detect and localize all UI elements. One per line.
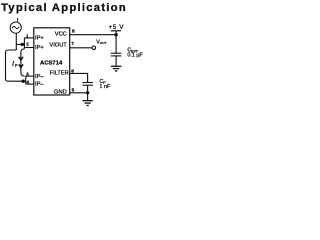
GND wire pin5 [70,92,88,94]
jumper bar pins 3-4 [25,76,27,84]
svg-text:VCC: VCC [55,32,67,38]
ground symbol GND2 [87,93,89,101]
svg-text:IP+: IP+ [35,36,44,42]
source stem wire [15,34,17,51]
svg-text:GND: GND [54,90,67,96]
capacitor CF [82,82,93,84]
sine wave inside source [12,26,19,28]
svg-text:2: 2 [26,42,29,47]
junction dot +5V node [114,33,117,36]
IC U1 ACS714 box [34,28,70,95]
svg-text:VIOUT: VIOUT [49,43,67,49]
capacitor CBYP [111,52,122,54]
wire source to IP+ node [16,43,24,45]
CBYP lower wire [115,56,117,66]
svg-text:1 nF: 1 nF [100,84,111,90]
VOUT open terminal [92,46,96,50]
svg-text:Typical Application: Typical Application [1,2,127,14]
pin 3 wire [26,75,34,77]
junction dot GND node [86,91,89,94]
FILTER wire pin6 [70,73,88,82]
VCC wire pin8 to +5V node [70,34,116,36]
svg-text:ACS714: ACS714 [40,60,63,66]
svg-text:IP–: IP– [35,74,44,80]
svg-text:0.1 µF: 0.1 µF [127,53,143,59]
svg-text:+5 V: +5 V [109,24,125,31]
svg-text:8: 8 [72,28,75,34]
svg-text:P: P [15,63,18,68]
svg-text:OUT: OUT [100,41,107,45]
svg-text:IP–: IP– [35,82,44,88]
svg-text:FILTER: FILTER [50,70,69,76]
junction dot node IP+ [21,43,24,46]
loop wire left [6,50,26,81]
AC current source IS1 [10,22,21,33]
CF lower wire [87,85,89,93]
ground symbol GND1 [111,65,122,67]
junction dot node IP- [22,80,25,83]
+5V rail bar [111,30,121,32]
pin 2 wire [24,47,33,49]
+5V rail down wire [115,31,117,53]
jumper bar pins 1-2 [23,38,25,49]
current direction arrow IP [21,49,25,76]
arrow tick above source [17,18,19,22]
svg-text:7: 7 [71,41,74,47]
VIOUT wire pin7 [70,47,92,49]
pin 1 wire [24,37,33,39]
svg-text:IP+: IP+ [35,45,44,51]
pin 4 wire [26,83,34,85]
